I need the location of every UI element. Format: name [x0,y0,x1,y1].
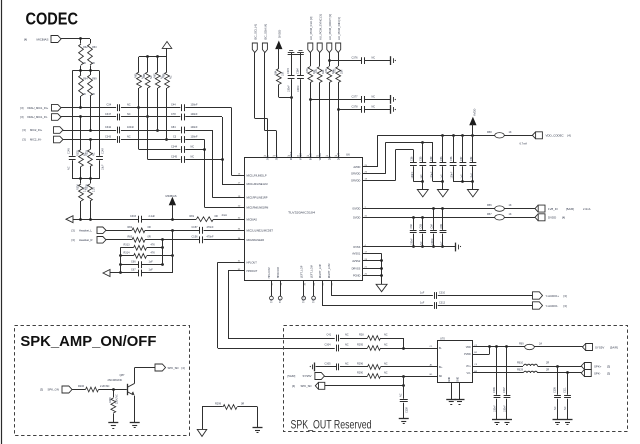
connector tag Headset_L [3] [97,227,106,234]
wire R81 to IC pin MICBIAS [213,219,244,221]
svg-text:C310: C310 [439,291,446,294]
capacitor C84 100nF [181,127,183,134]
resistor R313 47K [120,247,133,249]
svg-text:C65: C65 [440,223,443,228]
svg-text:RIGHT_LOM: RIGHT_LOM [327,263,331,278]
wire emitter to ground [134,396,136,423]
wire triangle stem and rail [166,48,168,56]
svg-text:MIC2R/LINE2R: MIC2R/LINE2R [247,238,265,242]
wire AVDD pin to rail1 [363,166,378,168]
ground triangle group 1 [417,190,428,197]
svg-text:100nF: 100nF [503,405,506,412]
ground triangle down AGND [197,429,207,436]
svg-text:HPRCOM: HPRCOM [276,267,280,278]
connector tag Y-AUDIO+ [3] [533,292,543,299]
svg-text:HPLCOM: HPLCOM [267,267,271,278]
test point TP5 [280,281,282,296]
capacitor C304 NC [336,345,338,352]
capacitor C52 10uF [470,162,477,164]
resistor R305 [90,179,92,184]
power symbol open triangle [162,42,172,49]
svg-text:NC: NC [170,75,173,79]
svg-text:NC: NC [68,166,71,170]
capacitor C311 NC [567,373,569,395]
svg-text:1uF: 1uF [149,260,154,263]
ground C307 [502,419,512,421]
svg-text:100nF: 100nF [411,171,414,178]
svg-text:100nF: 100nF [127,126,135,129]
wire power rail3 [396,149,414,151]
connector tag AU_PCM_DOUT [3] [327,43,332,53]
svg-text:47K: 47K [151,252,156,255]
svg-text:[3]: [3] [564,294,567,298]
wire collector to SPK_SD tag [134,368,136,384]
capacitor C62 100nF [413,217,415,230]
svg-text:XDAU_MIC1_IN-: XDAU_MIC1_IN- [27,115,48,119]
wire VO+ line [473,366,524,368]
svg-text:FB29: FB29 [517,369,524,372]
svg-text:[4]: [4] [24,37,27,41]
svg-text:R66: R66 [143,73,146,78]
svg-text:2K: 2K [92,93,95,96]
wire line5 to line4 vertical [185,149,204,151]
wire PGND to ground [363,275,382,277]
svg-text:DRVSS: DRVSS [352,267,361,271]
capacitor C342 100nF [117,127,119,134]
svg-text:R313: R313 [124,243,131,246]
svg-text:LEFT_LOM: LEFT_LOM [309,265,313,278]
svg-text:100nF: 100nF [191,126,199,129]
svg-text:MIC1RP/LINE1RP: MIC1RP/LINE1RP [247,196,268,200]
svg-text:FB7: FB7 [487,213,492,216]
svg-text:470nF: 470nF [207,235,215,238]
svg-text:U70: U70 [440,337,445,341]
wire line1 to C44 [121,107,180,109]
svg-text:C59: C59 [430,156,433,161]
capacitor C310 1uF [434,292,436,299]
wire rail1 to VDD_CODEC tag [504,135,532,137]
svg-text:[3]: [3] [72,238,75,242]
wire HPROUT route [228,270,244,272]
resistor R28 NC [340,338,368,340]
svg-text:RIGHT_LOP: RIGHT_LOP [318,264,322,279]
resistor R81 0R [196,217,213,222]
svg-text:B2: B2 [474,352,477,354]
terminal stub right 1 [390,56,392,65]
svg-text:IOVDD: IOVDD [352,207,360,211]
svg-text:40: 40 [304,282,306,285]
svg-text:[4]: [4] [292,384,295,388]
op-amp U70 speaker amp [438,341,473,383]
wire line2 to IC pin MIC1LM [185,116,222,118]
svg-text:R299: R299 [215,403,222,406]
wire branch CLK stub [309,98,312,101]
wire branch DOUT stub [328,59,331,62]
wire cap top rail [288,54,304,56]
svg-text:41: 41 [314,282,316,285]
connector tag AU_PCM_DIN [3] [336,43,341,53]
capacitor C156 470nF [199,236,201,243]
resistor R294 220K [113,390,115,398]
svg-text:Headset_L: Headset_L [79,229,93,233]
svg-text:NC: NC [127,104,131,107]
connector tag 1V8_IO [538,205,545,212]
svg-text:R82: R82 [128,226,133,229]
ground bars above C370 [291,53,293,55]
svg-text:2R: 2R [546,362,549,365]
connector tag AU_PCM_SYNC [3] [317,43,322,53]
wire bias junction rail [72,70,99,72]
svg-text:2A: 2A [539,343,542,346]
wire line3 to C84 [121,130,180,132]
svg-text:2.2uF: 2.2uF [149,215,156,218]
connector tag MICBIAS [4] [51,36,61,43]
ground C308 [553,419,563,421]
svg-text:[3]: [3] [607,364,610,368]
wire decoupling ground group 3 [453,181,473,183]
wire NC branch line5 [138,108,140,150]
svg-text:[3]: [3] [40,388,43,392]
svg-text:R63: R63 [92,46,97,49]
svg-text:2.2K: 2.2K [93,187,96,192]
ground triangle AVSS [376,284,387,291]
wire DRVDD2 pin to rail3 [363,180,396,182]
svg-text:IN+: IN+ [439,366,443,369]
svg-text:C57: C57 [460,156,463,161]
wire R206 to base [99,389,127,391]
svg-text:220K/NC: 220K/NC [115,394,118,404]
connector tag Y-AUDIO- [3] [533,302,543,309]
svg-text:XDAU_MIC1_IN+: XDAU_MIC1_IN+ [27,106,49,110]
svg-text:1uF: 1uF [440,174,443,179]
svg-text:6.7mA: 6.7mA [520,142,528,146]
svg-text:C156: C156 [192,235,199,238]
svg-text:NC: NC [372,105,376,108]
capacitor C55 1uF [422,142,424,162]
svg-text:R83: R83 [128,235,133,238]
resistor R82 0R [106,230,132,232]
svg-text:[5A/R]: [5A/R] [566,207,574,211]
svg-text:TP5: TP5 [279,298,282,303]
ground triangle group 3 [467,190,478,197]
svg-text:LEFT_LOP: LEFT_LOP [300,265,304,278]
svg-text:C58: C58 [450,156,453,161]
ground triangle group 2 [437,190,448,197]
svg-text:AVSS1: AVSS1 [352,252,361,256]
connector tag VDD_CODEC [4] [536,132,543,139]
svg-text:R65: R65 [135,73,138,78]
svg-text:100nF: 100nF [431,238,434,245]
connector tag SPK- [3] [584,370,591,377]
svg-text:Headset_R: Headset_R [79,238,93,242]
capacitor C308 NC [557,366,559,395]
wire HPLOUT route [218,262,244,264]
svg-text:NC: NC [384,334,388,337]
svg-text:R72: R72 [325,68,328,73]
svg-text:DVSS: DVSS [353,245,360,249]
wire C156 to IC pin MIC2R [204,239,244,241]
svg-text:1uF: 1uF [420,174,423,179]
svg-text:R62: R62 [83,46,88,49]
svg-text:R314: R314 [124,252,131,255]
svg-text:470nF: 470nF [207,226,215,229]
svg-text:10K: 10K [281,71,284,76]
wire AVSS1 to ground [363,253,382,255]
capacitor C312 1uF [434,302,436,309]
wire VO- line [473,372,524,374]
wire decoupling ground group 1 [413,181,422,183]
capacitor C53 1uF [442,135,444,162]
wire AGND rail to C303 [73,219,139,221]
svg-text:2K: 2K [92,62,95,65]
capacitor C78 100nF [181,114,183,121]
capacitor C378 NC [361,106,363,113]
svg-text:R290: R290 [357,372,364,375]
connector tag AU_PCM_CLK [3] [308,43,313,53]
svg-text:NC: NC [93,152,96,156]
svg-text:VDD_CODEC: VDD_CODEC [546,134,564,138]
terminal stub right 2 [390,95,392,104]
svg-text:NC: NC [384,372,388,375]
svg-text:[3]: [3] [607,371,610,375]
wire left branch down to C148 [72,71,74,156]
resistor R69 [90,71,92,75]
connector tag XDAU_MIC1_IN+ [3] [52,104,62,111]
wire line1 to IC pin MIC1LP [185,107,231,109]
svg-text:R68: R68 [163,73,166,78]
svg-text:TP10: TP10 [303,297,306,303]
svg-text:[3]: [3] [23,138,26,142]
capacitor C44 100nF [181,104,183,111]
wire C303 to R81 [141,219,196,221]
wire join to line2 [403,338,405,348]
resistor R68 [166,57,168,72]
capacitor C56 100nF [413,150,415,163]
terminal stub right 3 [390,105,392,114]
svg-text:[4]: [4] [568,134,571,138]
inductor FB10 [524,364,538,366]
svg-text:NC: NC [554,406,557,410]
capacitor C149 [96,156,103,158]
svg-text:[5A/R]: [5A/R] [610,345,618,349]
page border left edge [1,0,3,444]
svg-text:SPK_SD: SPK_SD [301,384,312,388]
connector tag SYS5V [5A/R] [586,344,593,351]
svg-text:R302: R302 [77,150,80,156]
ground bars above C364 [300,53,302,55]
ferrite bead FB9 [525,344,535,349]
svg-text:TLV320AIC3104: TLV320AIC3104 [288,210,315,214]
ground amp 1 [446,399,456,401]
inductor FB29 [524,371,538,373]
svg-text:R67: R67 [153,73,156,78]
capacitor C303 2.2uF [138,216,140,223]
wire DVSS ground line [363,246,456,248]
svg-text:C149: C149 [102,148,105,154]
svg-text:NC: NC [345,334,349,337]
svg-text:SPK_SD: SPK_SD [168,366,179,370]
svg-text:R206: R206 [78,385,85,388]
resistor R64 [80,71,82,75]
svg-text:100nF: 100nF [430,171,433,178]
svg-text:NC: NC [127,113,131,116]
capacitor C157 470nF [199,227,201,234]
ground C309 [399,418,409,420]
svg-text:C63: C63 [420,223,423,228]
capacitor C66 1uF [120,264,139,266]
capacitor C65 NC [442,209,444,230]
svg-text:DVDD: DVDD [278,30,282,38]
svg-text:MICBIAS: MICBIAS [166,194,177,198]
wire DRVDD pin to rail2 [363,173,386,175]
svg-text:100nF: 100nF [451,171,454,178]
svg-text:GND: GND [449,377,451,382]
capacitor C345 NC [181,156,183,163]
svg-text:AU_PCM_DOUT [3]: AU_PCM_DOUT [3] [328,14,332,40]
svg-text:C67: C67 [131,269,136,272]
wire R84 to RESET node [279,97,291,99]
svg-text:33R: 33R [341,69,344,74]
svg-text:2K: 2K [83,93,86,96]
svg-text:B1: B1 [430,374,433,376]
svg-text:Y-AUDIO-: Y-AUDIO- [546,304,559,308]
svg-text:C304: C304 [325,344,332,347]
terminal ground DVSS [455,243,457,252]
wire AVSS2 to ground [363,260,382,262]
test point TP11 [313,281,315,296]
ground R294 [108,422,118,424]
wire power rail1 [378,135,533,137]
svg-text:2.3mA: 2.3mA [583,207,591,211]
svg-text:MIC2_IN-: MIC2_IN- [30,138,42,142]
capacitor C59 100nF [432,142,434,162]
capacitor C41 NC [336,335,338,342]
svg-text:[3]: [3] [564,304,567,308]
resistor R62 [80,39,82,44]
svg-text:100nF: 100nF [297,85,300,92]
svg-text:DRVDD: DRVDD [351,179,360,183]
svg-text:C78: C78 [171,113,176,116]
svg-text:C345: C345 [171,155,178,158]
wire line4 to C3 [121,139,180,141]
svg-text:C347: C347 [105,113,112,116]
svg-text:MICBIAS: MICBIAS [247,217,258,221]
svg-text:C44: C44 [171,104,176,107]
svg-text:MIC1RM/LINE1RM: MIC1RM/LINE1RM [247,205,269,209]
svg-text:VO+: VO+ [466,365,471,368]
svg-text:NC: NC [127,135,131,138]
svg-text:Q87: Q87 [120,373,125,377]
resistor R296 NC [340,366,368,368]
wire IOVDD line [363,208,495,210]
capacitor C305 NC [316,366,337,368]
svg-text:1V8_IO: 1V8_IO [548,207,559,211]
svg-text:NC: NC [191,145,195,148]
svg-text:C52: C52 [470,156,473,161]
connector tag XDAU_MIC1_IN- [3] [52,114,62,121]
ground C311 [563,419,573,421]
svg-text:C344: C344 [171,145,178,148]
resistor R314 47K [120,255,133,257]
svg-text:10uF: 10uF [470,173,473,179]
svg-text:C311: C311 [563,387,566,393]
svg-text:C343: C343 [105,135,112,138]
connector tag I2C_SDA [4] [262,43,267,53]
wire RIGHT_LOP to C312 line [322,281,324,306]
capacitor C307 100nF [506,347,508,395]
capacitor C3 100nF [181,136,183,143]
svg-text:NC: NC [191,155,195,158]
resistor R83 0R [106,239,132,241]
ferrite bead FB8 [495,133,505,138]
svg-text:1K: 1K [509,131,512,134]
svg-text:R28: R28 [359,334,364,337]
svg-text:C64: C64 [430,223,433,228]
wire decoupling ground group 2 [433,181,443,183]
wire PVDD join [473,354,490,356]
capacitor C344 NC [181,146,183,153]
capacitor C64 100nF [433,209,435,230]
wire line2 to C78 [121,116,180,118]
svg-text:C377: C377 [352,95,359,98]
svg-text:C303: C303 [130,215,137,218]
test point TP10 [303,281,305,296]
svg-text:MICBIAS: MICBIAS [37,37,49,41]
connector tag MIC2_IN- [3] [54,136,64,143]
svg-text:C157: C157 [192,226,199,229]
capacitor C347 NC [117,114,119,121]
connector tag SPK_SD [4] [155,364,166,371]
svg-text:TP4: TP4 [270,298,273,303]
capacitor C306 100nF [496,347,498,395]
svg-text:NC: NC [440,241,443,245]
resistor R67 [157,57,159,72]
svg-text:[3]: [3] [20,115,23,119]
svg-text:C305: C305 [325,363,332,366]
svg-text:2K: 2K [83,62,86,65]
op-amp U6 codec IC TLV320AIC3104 [245,158,363,281]
svg-text:1uF: 1uF [460,174,463,179]
svg-text:R84: R84 [274,70,277,75]
svg-text:DVDD: DVDD [548,216,556,220]
capacitor C57 1uF [462,135,464,162]
resistor R303 [90,140,92,150]
wire branch DIN stub [337,108,340,111]
svg-text:C306: C306 [493,387,496,393]
svg-text:FB9: FB9 [519,343,524,346]
box SPK_OUT Reserved dashed [284,326,628,432]
svg-text:SPK_ON: SPK_ON [48,388,59,392]
svg-text:1uF: 1uF [420,291,425,294]
svg-text:NC: NC [372,95,376,98]
ferrite bead FB7 [495,215,505,220]
resistor R72 33R [329,53,331,67]
svg-text:1K: 1K [509,204,512,207]
svg-text:AU_PCM_SYNC [3]: AU_PCM_SYNC [3] [318,14,322,40]
svg-text:SD: SD [439,375,443,378]
wire XDAU_MIC1_IN- [61,116,116,118]
capacitor C309 NC [400,399,408,401]
wire amp GND stubs [451,383,453,399]
svg-text:R295: R295 [357,344,364,347]
capacitor C58 100nF [453,135,455,162]
wire line6 to line2 vertical [185,159,222,161]
resistor R65 [138,57,140,72]
svg-text:C34: C34 [107,104,112,107]
svg-text:NC: NC [372,57,376,60]
svg-text:MIC1LM/LINE1LM: MIC1LM/LINE1LM [247,182,268,186]
capacitor C63 NC [422,217,424,230]
